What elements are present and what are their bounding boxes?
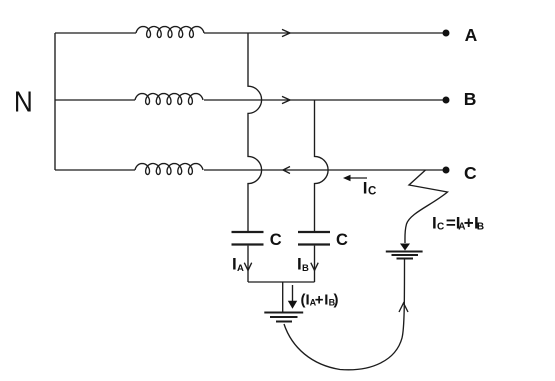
arrow IC under phase C xyxy=(343,175,367,182)
wire from phase B down to right capacitor with hop over C xyxy=(315,100,329,232)
wire phase A right segment xyxy=(204,32,443,34)
wire neutral bus xyxy=(54,33,56,170)
capacitor C right plates xyxy=(298,232,330,245)
inductor phase B xyxy=(135,94,203,105)
inductor phase C xyxy=(135,164,203,175)
capacitor C left plates xyxy=(232,232,264,245)
svg-text:C: C xyxy=(368,185,376,197)
label IA xyxy=(232,255,244,274)
inductor phase A xyxy=(136,27,204,38)
svg-text:B: B xyxy=(464,89,477,109)
ground left xyxy=(264,313,303,322)
label B xyxy=(464,89,477,109)
svg-text:+: + xyxy=(464,214,474,233)
svg-text:C: C xyxy=(464,163,477,183)
label C terminal xyxy=(464,163,477,183)
svg-text:I: I xyxy=(363,178,368,197)
wire phase A left segment xyxy=(55,32,136,34)
svg-text:(I: (I xyxy=(301,292,310,309)
label (IA+IB) xyxy=(301,292,339,309)
arrow current direction on phase B xyxy=(282,96,290,103)
wire ground return loop xyxy=(284,258,405,370)
node N label xyxy=(14,86,33,118)
wire from bottom bus to left ground xyxy=(282,282,284,312)
wire from phase A down to left capacitor with hops over B and C xyxy=(248,33,262,232)
label A xyxy=(465,25,478,45)
wire phase C left segment xyxy=(55,169,135,171)
label C left capacitor xyxy=(270,231,282,249)
wire phase C right segment xyxy=(204,169,443,171)
wire bottom bus joining capacitors xyxy=(248,281,315,283)
wire below left capacitor xyxy=(247,246,249,282)
arrow IB on wire xyxy=(311,263,318,271)
label IC = IA+IB xyxy=(432,214,484,233)
wire fault zigzag from phase C to right ground xyxy=(405,170,448,243)
arrow current direction on phase C xyxy=(283,167,290,174)
wire phase B right segment xyxy=(204,99,443,101)
node terminal A xyxy=(443,30,450,37)
svg-text:C: C xyxy=(437,222,444,233)
svg-text:B: B xyxy=(302,263,309,274)
arrow IA on wire xyxy=(244,263,251,271)
svg-text:): ) xyxy=(334,292,339,309)
svg-text:=: = xyxy=(446,214,456,233)
arrow current direction on phase A xyxy=(282,29,290,36)
label IB xyxy=(297,255,309,274)
wire below right capacitor xyxy=(314,246,316,282)
arrow on ground return loop xyxy=(399,303,408,312)
svg-text:+: + xyxy=(315,292,324,309)
svg-text:A: A xyxy=(465,25,478,45)
label IC xyxy=(363,178,377,197)
node terminal C xyxy=(443,167,450,174)
svg-text:C: C xyxy=(270,231,282,249)
svg-text:B: B xyxy=(477,222,484,233)
arrow into right ground xyxy=(400,244,410,251)
svg-text:A: A xyxy=(237,263,244,274)
node terminal B xyxy=(443,97,450,104)
svg-text:N: N xyxy=(14,86,33,118)
svg-text:C: C xyxy=(336,231,348,249)
wire phase B left segment xyxy=(55,99,135,101)
label C right capacitor xyxy=(336,231,348,249)
ground right xyxy=(386,252,423,259)
arrow (IA+IB) xyxy=(288,285,297,309)
